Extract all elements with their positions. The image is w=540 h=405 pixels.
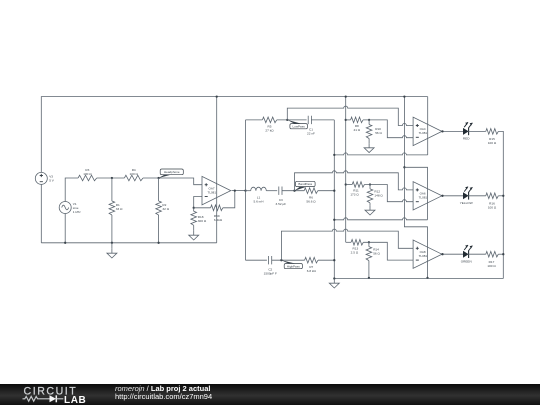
svg-text:173 Ω: 173 Ω — [350, 193, 359, 197]
svg-text:5 V: 5 V — [49, 178, 55, 182]
wire R4 to OA7 plus input — [143, 178, 202, 185]
svg-text:TL081: TL081 — [419, 254, 428, 258]
op-amp OA4 — [413, 117, 442, 145]
flag BandPass — [295, 181, 316, 190]
resistor R2 — [156, 178, 170, 243]
node OA6 VCC junction — [403, 166, 405, 168]
resistor R15 — [486, 129, 499, 146]
svg-text:2.5 Ω: 2.5 Ω — [351, 250, 359, 254]
capacitor C3 — [279, 187, 282, 195]
node bus C top rail junction — [403, 95, 405, 97]
node OA7 output/feedback junction — [234, 189, 236, 191]
wire R6 to ground bus — [318, 190, 335, 192]
wire V3 minus to bottom rail — [40, 184, 42, 242]
wire bottom ground rail right — [334, 278, 503, 280]
svg-text:TL081: TL081 — [208, 190, 217, 194]
node OA4 output — [441, 130, 443, 132]
node R11 bus junction — [345, 183, 347, 185]
svg-text:3.52 µF: 3.52 µF — [276, 202, 287, 206]
wire branch to L1 — [246, 190, 251, 192]
svg-text:32 Ω: 32 Ω — [162, 207, 169, 211]
svg-text:56.6 Ω: 56.6 Ω — [306, 199, 316, 203]
wire C2 to R7 — [272, 259, 305, 261]
svg-text:TL081: TL081 — [419, 131, 428, 135]
wire OA6 output to YELLOW LED — [442, 195, 463, 197]
wire R17 to LED return bus — [498, 253, 503, 255]
wire R7 to ground bus — [318, 259, 334, 261]
op-amp OA7 — [202, 176, 231, 204]
wire LowPass node to OA4 plus input — [287, 106, 413, 125]
node R13/R14 divider tap — [368, 241, 370, 243]
LED GREEN — [463, 245, 472, 258]
node R7 ground bus junction — [333, 259, 335, 261]
node R6 ground bus junction — [333, 190, 335, 192]
node OA8 VEE rail junction — [426, 277, 428, 279]
wire +5V bus vertical — [345, 97, 347, 243]
svg-text:1 kHz: 1 kHz — [73, 210, 81, 214]
wire OA7 minus input to feedback node — [194, 197, 202, 208]
wire R16 to LED return bus — [498, 195, 503, 197]
wire ground bus vertical — [333, 120, 335, 279]
svg-text:100 Ω: 100 Ω — [83, 172, 92, 176]
ground under R12 — [369, 206, 371, 211]
svg-text:6.2kΩ: 6.2kΩ — [214, 218, 223, 222]
node R8 bus junction — [345, 119, 347, 121]
svg-text:6.8 kΩ: 6.8 kΩ — [307, 269, 317, 273]
resistor R3 — [78, 168, 97, 181]
node bus B top rail junction — [345, 95, 347, 97]
node R14 bottom rail junction — [368, 277, 370, 279]
svg-text:RED: RED — [463, 137, 470, 141]
wire +5V bus to OA8 VCC and power vertical — [404, 97, 427, 278]
LED YELLOW — [463, 187, 472, 200]
logo resistor squiggle — [23, 396, 41, 401]
LED RED — [463, 122, 472, 135]
ground under R18 — [193, 231, 195, 236]
resistor R1 — [109, 178, 123, 243]
node R17 return bus junction — [502, 253, 504, 255]
capacitor C1 — [308, 116, 311, 124]
svg-text:1500pF F: 1500pF F — [264, 272, 277, 276]
node OA7 feedback junction — [193, 207, 195, 209]
wire C1 to ground bus — [311, 119, 334, 121]
node OA6 output — [441, 195, 443, 197]
resistor R99 — [194, 191, 235, 222]
resistor R12 — [367, 185, 383, 206]
wire branch to C2 — [246, 259, 267, 261]
resistor R4 — [124, 168, 143, 181]
resistor R8 — [346, 117, 363, 132]
node R2 bottom rail junction — [157, 242, 159, 244]
svg-text:56 Ω: 56 Ω — [373, 252, 380, 256]
wire OA4 VEE to ground bus — [334, 153, 427, 155]
ground under bottom-left rail — [111, 249, 113, 254]
svg-text:148 Ω: 148 Ω — [374, 194, 383, 198]
resistor R17 — [486, 251, 499, 268]
wire R3 to R4 — [97, 177, 125, 179]
svg-text:56 Ω: 56 Ω — [375, 131, 382, 135]
node OA6 VEE ground junction — [333, 219, 335, 221]
node BandPass — [293, 190, 295, 192]
wire OA6 VEE to ground bus — [334, 218, 427, 220]
inductor L1 — [251, 187, 267, 203]
node LowPass — [286, 119, 288, 121]
wire top +5V rail — [41, 97, 427, 173]
wire OA8 output to GREEN LED — [442, 253, 463, 255]
wire divider tap to OA8 minus input — [363, 242, 413, 260]
svg-text:LowPass: LowPass — [293, 124, 306, 128]
wire OA7 power vertical (VCC top rail to VEE bottom rail) — [216, 97, 218, 243]
wire HighPass node to OA8 plus input — [281, 229, 413, 260]
wire RED LED to R15 — [468, 130, 486, 132]
wire OA7 output to filter branch — [232, 190, 246, 192]
ground main — [333, 279, 335, 284]
wire OA4 power vertical — [427, 97, 429, 155]
node R16 return bus junction — [502, 195, 504, 197]
node ground bus bottom junction — [333, 277, 335, 279]
wire V1 to R3 — [65, 178, 78, 202]
svg-text:100 Ω: 100 Ω — [488, 141, 497, 145]
wire C3 to R6 — [282, 190, 304, 192]
node OA7 VCC rail junction — [216, 95, 218, 97]
resistor R13 — [346, 240, 364, 255]
svg-text:GREEN: GREEN — [461, 259, 472, 263]
op-amp OA8 — [413, 240, 442, 268]
resistor R14 — [366, 242, 380, 278]
svg-text:100 Ω: 100 Ω — [487, 264, 496, 268]
wire divider tap to OA6 minus input — [364, 185, 413, 202]
node OA8 output — [441, 253, 443, 255]
wire divider tap to OA4 minus input — [363, 120, 413, 138]
svg-text:100 Ω: 100 Ω — [130, 172, 139, 176]
resistor R5 — [246, 117, 307, 133]
svg-text:100 Ω: 100 Ω — [488, 206, 497, 210]
node OA4 VEE ground junction — [333, 154, 335, 156]
resistor R18 — [191, 208, 207, 231]
wire bottom-left ground rail — [41, 242, 216, 244]
resistor R10 — [366, 120, 382, 143]
node filter branch junction — [244, 189, 246, 191]
footer bar — [0, 384, 540, 405]
resistor R16 — [486, 193, 499, 210]
resistor R11 — [346, 182, 365, 197]
svg-text:TL081: TL081 — [419, 196, 428, 200]
capacitor C2 — [269, 256, 272, 264]
svg-text:YELLOW: YELLOW — [460, 201, 473, 205]
svg-text:Headphone: Headphone — [164, 170, 180, 174]
svg-text:27 kΩ: 27 kΩ — [265, 129, 274, 133]
voltage source V3 — [35, 172, 54, 184]
node R3/R4/R1 junction — [111, 177, 113, 179]
node Headphone junction — [157, 177, 159, 179]
wire OA6 VCC / power vertical — [404, 167, 427, 220]
svg-text:33 Ω: 33 Ω — [116, 207, 123, 211]
flag HighPass — [281, 260, 302, 269]
CircuitLab logo — [0, 384, 110, 405]
wire rail to ground stem — [111, 243, 113, 249]
resistor R7 — [305, 257, 318, 273]
flag Headphone — [159, 169, 184, 178]
node HighPass — [280, 259, 282, 261]
wire OA4 output to RED LED — [442, 130, 463, 132]
wire filter branch vertical — [245, 120, 247, 260]
wire GREEN LED to R17 — [468, 253, 486, 255]
node V1-bottom rail junction — [64, 242, 66, 244]
svg-text:300 Ω: 300 Ω — [198, 219, 207, 223]
wire V1 minus to bottom rail — [64, 214, 66, 243]
flag LowPass — [287, 120, 307, 129]
svg-text:BandPass: BandPass — [298, 182, 312, 186]
svg-text:41 Ω: 41 Ω — [353, 128, 360, 132]
svg-text:LAB: LAB — [64, 395, 86, 405]
wire L1 to C3 — [266, 190, 277, 192]
voltage source V1 — [59, 202, 81, 214]
svg-text:22 nF: 22 nF — [307, 132, 315, 136]
node R8/R10 divider tap — [368, 119, 370, 121]
svg-text:HighPass: HighPass — [287, 264, 300, 268]
wire R15 to LED return bus — [498, 131, 503, 278]
wire YELLOW LED to R16 — [468, 195, 486, 197]
wire BandPass node to OA6 plus input — [295, 171, 414, 191]
node R11/R12 divider tap — [369, 183, 371, 185]
resistor R6 — [304, 188, 318, 204]
node R1 bottom rail junction — [111, 242, 113, 244]
svg-text:5.6 mH: 5.6 mH — [254, 199, 264, 203]
ground under R10 — [368, 143, 370, 148]
op-amp OA6 — [413, 182, 442, 210]
logo diode — [40, 398, 50, 400]
